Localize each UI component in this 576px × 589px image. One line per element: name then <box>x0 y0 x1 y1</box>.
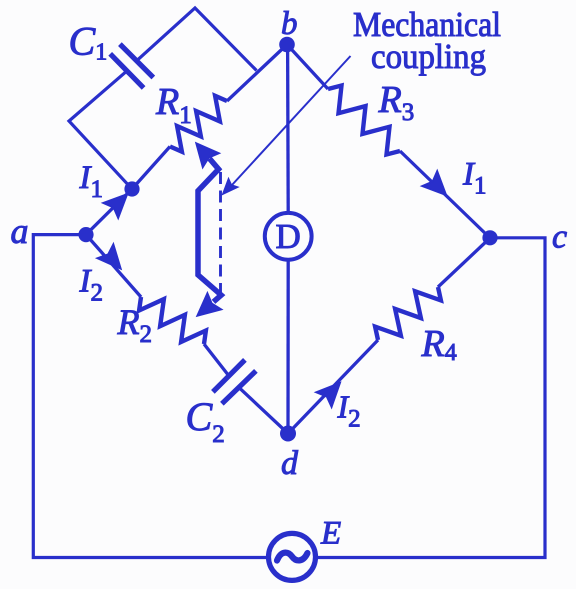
source E circle <box>269 533 316 580</box>
svg-text:b: b <box>281 6 298 42</box>
svg-text:d: d <box>281 445 299 482</box>
svg-text:I1: I1 <box>79 160 104 203</box>
wire: node I1 to R1 <box>132 147 170 190</box>
resistor R3 <box>328 86 400 155</box>
coupling pointer arrowhead <box>223 178 239 194</box>
wire: C2 to node d <box>239 387 288 433</box>
wire: R4 to node d <box>288 340 378 434</box>
svg-text:R3: R3 <box>378 79 415 126</box>
wire: R2 to C2 <box>204 344 229 376</box>
R2 wiper arrow <box>197 293 222 316</box>
capacitor C1 plate 2 <box>120 44 153 77</box>
arrow I1 right <box>422 171 447 196</box>
resistor R2 <box>139 297 206 344</box>
svg-text:I2: I2 <box>337 389 361 433</box>
svg-text:I2: I2 <box>79 264 104 307</box>
svg-text:C2: C2 <box>186 394 225 448</box>
svg-text:a: a <box>11 211 29 251</box>
node c dot <box>482 230 497 245</box>
detector D circle <box>265 213 312 260</box>
wire: C1 plate to peak to b-R1 wire <box>137 8 257 71</box>
R1 wiper arrow <box>196 143 219 168</box>
svg-text:C1: C1 <box>69 18 108 65</box>
svg-text:I1: I1 <box>462 157 487 200</box>
wire: detector D down to d <box>286 260 290 434</box>
arrow I2 right <box>316 383 341 408</box>
wire: outer loop right+top (c corner) <box>316 238 546 558</box>
coupling pointer line <box>226 56 351 192</box>
svg-text:E: E <box>320 515 341 551</box>
resistor R1 <box>170 96 227 152</box>
arrow I1 left <box>103 194 128 219</box>
wire: junction a to R2 <box>86 235 141 297</box>
arrow I2 left <box>97 244 121 269</box>
svg-text:coupling: coupling <box>371 37 486 76</box>
source E tilde <box>277 553 308 561</box>
wire: b down to detector D <box>286 45 290 213</box>
wire: R1 to node b <box>227 45 287 102</box>
node I1 junction dot <box>124 181 139 196</box>
resistor R4 <box>375 287 441 340</box>
capacitor C1 plate 1 <box>110 54 143 88</box>
svg-text:R1: R1 <box>155 81 192 129</box>
svg-text:c: c <box>552 219 567 256</box>
capacitor C2 plate 1 <box>213 360 245 392</box>
wire: outer loop left+bottom (a corner) <box>33 235 268 558</box>
node b dot <box>279 37 295 53</box>
wire: b to R3 <box>287 45 328 90</box>
wire: c to R4 <box>438 238 490 287</box>
wire: node I1 up to C1 plate via corner <box>69 71 132 189</box>
mechanical coupling dashed line <box>219 172 222 293</box>
svg-text:R4: R4 <box>421 323 457 366</box>
wiper bar (mechanical link) <box>198 159 221 302</box>
capacitor C2 plate 2 <box>222 371 256 404</box>
node d dot <box>280 426 296 442</box>
wire: junction a to node I1 <box>86 189 132 235</box>
node a junction dot <box>78 227 93 242</box>
svg-text:D: D <box>276 217 301 256</box>
wire: R3 to node c <box>400 151 490 238</box>
